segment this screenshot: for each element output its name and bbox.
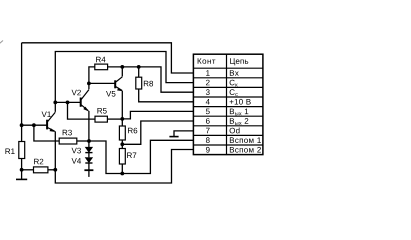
label net Вых 1 — [230, 109, 248, 116]
wire pin5 net — [122, 111, 193, 119]
wire left rail upper — [21, 43, 23, 142]
wire V2 collector up to R4 left — [89, 67, 95, 89]
resistor R3 — [59, 138, 77, 144]
resistor R2 — [34, 167, 48, 173]
label V4 — [72, 158, 82, 164]
node dot R8 top on R4 rail — [137, 65, 141, 69]
label R3 — [63, 130, 72, 136]
node dot R7 bottom on pin8 rail — [120, 172, 124, 176]
wire pin7 stub — [174, 131, 193, 136]
wire V3-V4 link — [88, 153, 90, 158]
label R8 — [144, 81, 153, 87]
node dot V5 base / R4 left — [87, 82, 91, 86]
resistor R1 — [19, 142, 25, 159]
wire pin8 net — [89, 140, 193, 173]
label table header Конт — [198, 58, 216, 64]
node dot base tee — [32, 123, 36, 127]
scan artifact tick top-left edge — [0, 41, 3, 44]
label V5 — [106, 91, 115, 97]
label pin number 8 — [206, 137, 210, 143]
resistor R4 — [95, 64, 108, 70]
wire R3 right — [77, 140, 89, 142]
wire V5 collector vertical — [121, 67, 123, 77]
label R1 — [5, 149, 14, 155]
label V1 — [42, 112, 51, 118]
diode V3 — [85, 147, 92, 152]
diode V4 — [85, 158, 92, 163]
node dot rail/V1 base — [20, 123, 24, 127]
wire pin9 net bottom rail — [55, 150, 193, 184]
resistor R5 — [95, 116, 107, 122]
wire V4 cathode lead — [88, 163, 90, 170]
node dot R1/R2/ground — [20, 168, 24, 172]
label net Вх — [230, 70, 239, 76]
label pin number 2 — [206, 80, 210, 86]
connector table — [193, 54, 263, 154]
label pin number 9 — [206, 147, 210, 153]
label R6 — [128, 128, 137, 134]
ground lead — [21, 170, 23, 179]
label net Od — [230, 128, 240, 134]
wire top rail pin1 net — [22, 43, 194, 73]
node dot V2 base tee to R5 — [66, 101, 70, 105]
wire R2 left — [22, 169, 34, 171]
label pin number 1 — [206, 70, 209, 76]
wire V5 emitter vertical — [121, 91, 123, 119]
wire V2 base horizontal — [55, 101, 80, 103]
transistor V2 — [81, 90, 89, 111]
label net +10 В — [230, 99, 251, 105]
node dot V5 emitter / R5 / R6 / pin5 — [120, 117, 124, 121]
resistor R8 — [136, 77, 142, 89]
label V2 — [72, 90, 81, 96]
label V3 — [72, 148, 81, 154]
resistor R7 — [119, 149, 125, 165]
label net Ск — [230, 80, 238, 87]
label table header Цепь — [230, 58, 248, 65]
resistor R6 — [119, 126, 125, 140]
label net Вспом 2 — [230, 147, 261, 153]
node dot V1 collector / pin2 / V2 base — [53, 101, 57, 105]
wire V1 base — [22, 124, 47, 126]
pin7 terminator bar — [169, 136, 178, 138]
node dot R2 right / emitter / pin9 — [53, 168, 57, 172]
wire R8 top lead — [138, 67, 140, 77]
wire V1 emitter vertical — [54, 131, 56, 170]
wire R2 right — [48, 169, 55, 171]
transistor V1 — [47, 112, 55, 131]
wire R7 bottom lead — [121, 164, 123, 174]
wire R6 bottom lead — [121, 140, 123, 149]
label R7 — [127, 153, 136, 159]
wire left rail lower — [21, 159, 23, 170]
label pin number 7 — [206, 128, 210, 134]
wire V2 emitter down to node — [88, 111, 90, 141]
wire tee to R5 left — [68, 102, 96, 119]
label pin number 5 — [206, 109, 210, 115]
wire R4 output rail pin3 net — [108, 67, 194, 92]
wire base tee down to R3 — [34, 125, 59, 141]
label pin number 4 — [206, 99, 210, 105]
wire R8 bottom to pin4 — [139, 89, 194, 102]
wire R6 top lead — [121, 119, 123, 126]
label pin number 3 — [206, 89, 210, 95]
label net Сс — [230, 89, 238, 96]
label R5 — [97, 108, 106, 114]
wire V3 anode lead — [88, 141, 90, 147]
label net Вспом 1 — [230, 137, 261, 143]
label R4 — [96, 57, 105, 63]
transistor V5 — [115, 77, 122, 91]
label R2 — [34, 159, 43, 165]
wire V4 end stub — [88, 170, 90, 177]
wire R5 right — [107, 118, 122, 120]
node dot V5 collector on R4 rail — [120, 65, 124, 69]
wire pin2 net — [55, 52, 193, 112]
wire pin6 net — [122, 121, 193, 144]
ground — [16, 178, 27, 180]
wire V5 base — [89, 82, 115, 84]
label pin number 6 — [206, 118, 210, 124]
V4 bottom terminal bar — [84, 169, 93, 171]
node dot R3/V2e/V3 — [87, 139, 91, 143]
label net Вых 2 — [230, 118, 248, 125]
node dot R6/R7/pin6 — [120, 142, 124, 146]
